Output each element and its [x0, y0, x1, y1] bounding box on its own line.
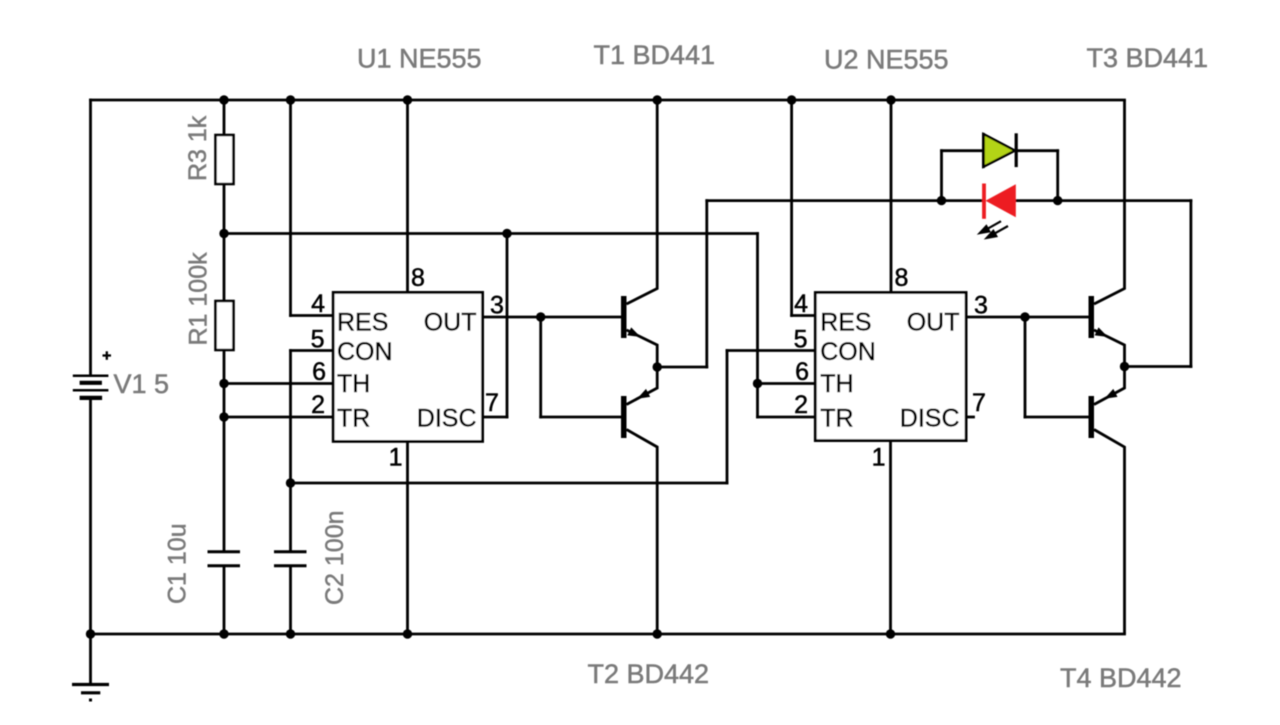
wire R1 top lead	[223, 234, 226, 302]
wire U2 pin6 TH stub	[758, 382, 816, 385]
wire C1 bottom lead	[223, 567, 226, 635]
wire T4 base horizontal	[1025, 416, 1089, 419]
wire C2 bottom lead	[289, 567, 292, 635]
svg-text:RES: RES	[820, 309, 871, 337]
wire LED left riser	[705, 201, 708, 367]
wire U2 pin4 stub	[792, 314, 816, 317]
svg-text:3: 3	[974, 292, 988, 320]
wire U1 pin8	[406, 100, 409, 292]
svg-text:2: 2	[794, 391, 808, 419]
svg-text:4: 4	[311, 290, 325, 318]
battery V1	[73, 376, 109, 398]
battery plus sign	[103, 351, 112, 360]
wire mid rail R1/DISC/U2-TR	[224, 232, 758, 235]
node top rail / U2 pin4	[787, 95, 796, 104]
node T3 T4 emitters	[1120, 362, 1129, 371]
svg-text:1: 1	[872, 444, 886, 472]
wire U2 pin3 OUT to T3 base	[966, 316, 1088, 319]
op-amp U1 NE555 box	[333, 292, 482, 441]
node top rail / U1 pin8	[403, 95, 412, 104]
svg-text:6: 6	[795, 358, 809, 386]
wire U2 pin4 vertical	[790, 100, 793, 316]
wire T1 emitter junction to LED riser	[657, 366, 707, 369]
svg-text:RES: RES	[337, 309, 388, 337]
svg-text:OUT: OUT	[907, 309, 960, 337]
wire T4 base vertical	[1024, 317, 1027, 417]
svg-text:OUT: OUT	[424, 309, 477, 337]
svg-text:R3 1k: R3 1k	[184, 115, 212, 181]
transistor T4 BD442	[1089, 367, 1125, 634]
svg-text:C2 100n: C2 100n	[321, 510, 349, 605]
wire right riser to T3 emitter junction	[1125, 365, 1191, 368]
wire U2 pin5 stub	[727, 349, 815, 352]
node top rail / R3	[219, 95, 228, 104]
svg-text:T3 BD441: T3 BD441	[1087, 43, 1209, 73]
wire U2 pin1	[889, 441, 892, 634]
wire T2 base vertical	[539, 317, 542, 417]
wire U1 pin7 stub	[483, 416, 507, 419]
node bottom rail / V1	[86, 629, 95, 638]
op-amp U2 NE555 box	[815, 293, 966, 441]
wire R3 top lead	[223, 100, 226, 135]
ground	[72, 685, 109, 701]
svg-text:T1 BD441: T1 BD441	[594, 40, 716, 70]
wire U2 pin2 TR stub	[758, 416, 816, 419]
node top rail / U1 pin4	[286, 95, 295, 104]
wire red LED left lead	[942, 199, 984, 202]
svg-text:TR: TR	[337, 405, 370, 433]
wire U1 pin3 OUT to T1 base	[483, 316, 621, 319]
node LED row left	[937, 196, 946, 205]
wire CON link horizontal	[291, 482, 728, 485]
transistor T1 BD441	[621, 100, 657, 367]
wire green LED right branch horizontal	[1016, 149, 1057, 152]
wire T2 base horizontal	[541, 416, 621, 419]
svg-text:T2 BD442: T2 BD442	[588, 659, 710, 689]
svg-text:DISC: DISC	[900, 405, 960, 433]
node LED row right	[1053, 196, 1062, 205]
wire R1 bottom lead to C1	[223, 350, 226, 551]
LED D1 green	[983, 133, 1016, 168]
svg-text:7: 7	[485, 389, 499, 417]
node mid rail / R1	[219, 229, 228, 238]
wire left column V1 bottom	[89, 400, 92, 634]
svg-text:R1 100k: R1 100k	[185, 252, 213, 346]
svg-text:5: 5	[311, 326, 325, 354]
node bottom rail / U2 pin1	[886, 629, 895, 638]
node T1 T2 emitters	[653, 362, 662, 371]
svg-text:2: 2	[311, 391, 325, 419]
svg-text:3: 3	[490, 292, 504, 320]
wire U1 DISC vertical	[506, 234, 509, 418]
capacitor C1	[208, 552, 241, 566]
wire U1 pin4 stub	[291, 314, 334, 317]
wire LED row left	[707, 199, 942, 202]
node top rail / T1 collector	[653, 95, 662, 104]
wire ground stem	[89, 634, 92, 684]
wire U1 pin4 vertical	[289, 100, 292, 316]
svg-text:T4 BD442: T4 BD442	[1060, 663, 1182, 693]
svg-text:CON: CON	[820, 338, 876, 366]
wire U1 pin1	[406, 441, 409, 634]
resistor R1	[216, 301, 234, 350]
svg-text:C1 10u: C1 10u	[164, 523, 192, 604]
wire top power rail	[91, 99, 1125, 102]
node bottom rail / C2	[286, 629, 295, 638]
svg-text:1: 1	[389, 444, 403, 472]
svg-text:7: 7	[972, 389, 986, 417]
transistor T3 BD441	[1089, 100, 1125, 367]
node bottom rail / U1 pin1	[403, 629, 412, 638]
wire R3 bottom lead	[223, 184, 226, 234]
wire green LED left branch vertical	[940, 151, 943, 201]
transistor T2 BD442	[621, 367, 657, 634]
node bottom rail / C1	[219, 629, 228, 638]
wire U1 pin5 stub	[291, 349, 334, 352]
capacitor C2	[274, 552, 307, 566]
svg-text:U2 NE555: U2 NE555	[824, 45, 949, 75]
wire U1 pin2 TR	[224, 416, 333, 419]
wire red LED right lead	[1017, 199, 1191, 202]
node U2 TH	[753, 379, 762, 388]
svg-text:4: 4	[794, 290, 808, 318]
svg-text:8: 8	[895, 264, 909, 292]
svg-text:6: 6	[312, 358, 326, 386]
wire U2 TH/TR vertical	[756, 234, 759, 418]
node CON link	[286, 478, 295, 487]
svg-text:DISC: DISC	[417, 405, 477, 433]
LED D2 red	[980, 184, 1016, 238]
svg-text:U1 NE555: U1 NE555	[357, 44, 482, 74]
svg-text:TR: TR	[820, 405, 853, 433]
LED D2 light arrows	[980, 221, 1008, 238]
svg-text:TH: TH	[820, 370, 853, 398]
node bottom rail / T2 collector	[653, 629, 662, 638]
resistor R3	[216, 135, 234, 184]
node OUT2 / T3 T4 base	[1020, 312, 1029, 321]
svg-text:5: 5	[794, 326, 808, 354]
wire right riser down	[1190, 201, 1193, 367]
wire U2 pin7 stub	[966, 416, 973, 419]
wire CON link vertical	[726, 351, 729, 484]
wire green LED right branch vertical	[1056, 151, 1059, 201]
svg-text:CON: CON	[337, 338, 393, 366]
svg-text:V1 5: V1 5	[114, 369, 170, 399]
node mid rail / DISC	[502, 229, 511, 238]
svg-text:TH: TH	[337, 370, 370, 398]
node R1 / TH	[219, 379, 228, 388]
wire U1 pin5 / C2 vertical	[289, 351, 292, 552]
wire left column V1 top	[89, 100, 92, 375]
wire bottom ground rail	[91, 633, 1125, 636]
wire U2 pin8	[890, 100, 893, 292]
node OUT1 / T1 T2 base	[536, 312, 545, 321]
node R1 / TR	[219, 412, 228, 421]
node top rail / U2 pin8	[886, 95, 895, 104]
wire U1 pin6 TH	[224, 382, 333, 385]
wire green LED left branch horizontal	[942, 149, 984, 152]
svg-text:8: 8	[411, 264, 425, 292]
